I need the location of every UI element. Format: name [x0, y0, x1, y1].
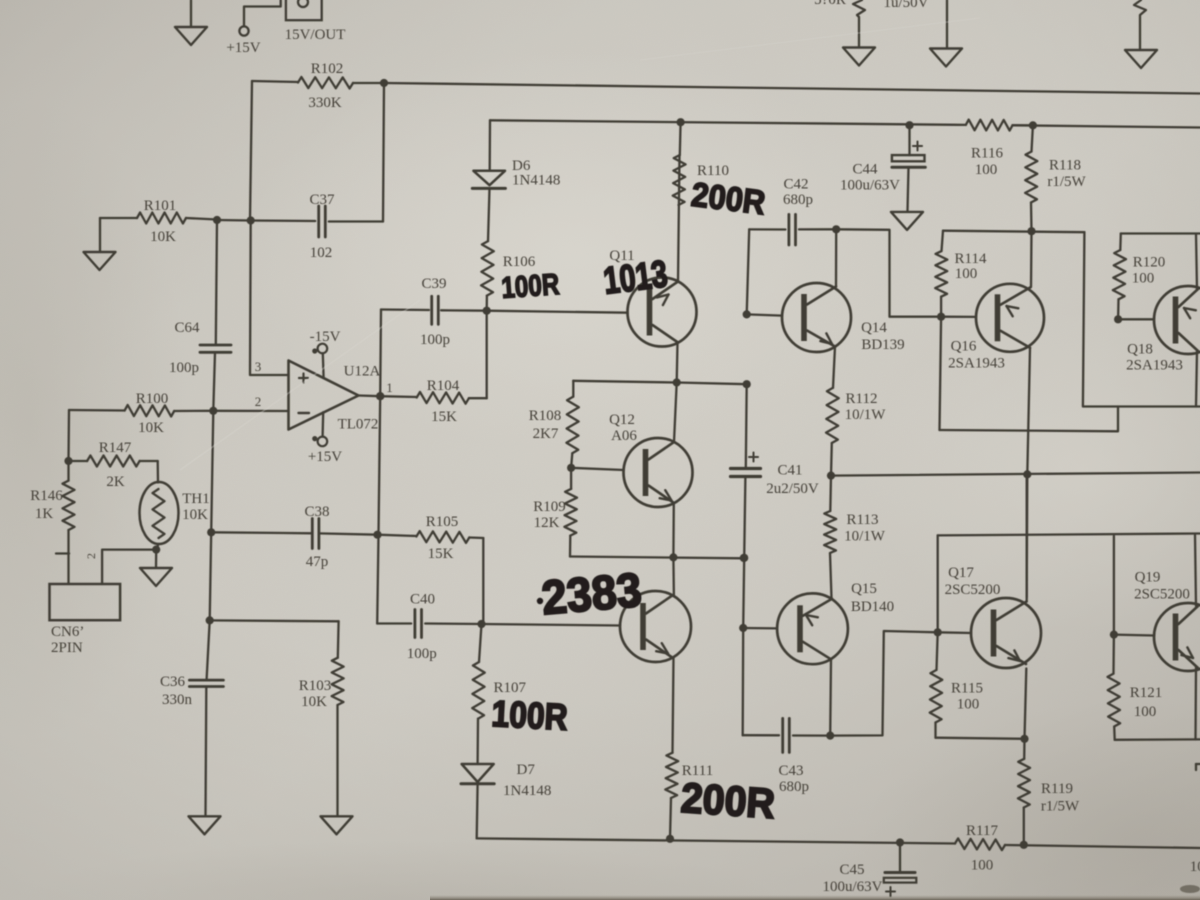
resistor R101: [100, 213, 217, 224]
wire: [940, 317, 942, 430]
label R114: [955, 251, 987, 282]
resistor R112: [826, 388, 839, 443]
svg-text:R120: R120: [1133, 255, 1166, 271]
node: [380, 79, 388, 87]
Q16 diag down: [1001, 331, 1031, 348]
svg-text:R102: R102: [311, 61, 344, 77]
wire Q13 collector: [672, 557, 675, 596]
svg-text:C39: C39: [421, 276, 446, 292]
label R106: [503, 254, 536, 270]
label pin1: [386, 380, 393, 395]
wire Q17 emitter: [1025, 669, 1027, 739]
wire Q11 emitter: [676, 343, 679, 383]
wire: [830, 553, 832, 598]
svg-text:Q12: Q12: [609, 412, 635, 428]
wire base Q11: [487, 311, 628, 313]
Q19 diag down: [1179, 650, 1199, 668]
ground: [84, 218, 116, 270]
svg-text:C64: C64: [174, 320, 200, 336]
resistor R105: [378, 531, 484, 543]
Q12 diag up: [649, 442, 675, 460]
wire: [476, 784, 479, 839]
wire: [1113, 536, 1115, 635]
capacitor C38: [312, 519, 319, 549]
svg-text:R113: R113: [847, 512, 879, 528]
svg-text:1013: 1013: [601, 253, 670, 302]
node: [1023, 470, 1031, 478]
artifact smudge: [1180, 885, 1200, 893]
label clipped: [1190, 859, 1200, 875]
svg-text:R100: R100: [136, 391, 169, 407]
wire: [217, 219, 251, 222]
ground: [321, 816, 353, 834]
label R146: [30, 488, 63, 522]
node: [1020, 735, 1028, 743]
wire: [204, 687, 207, 817]
handwritten 1013: [601, 253, 670, 302]
wire: [749, 228, 785, 230]
wire base Q19: [1114, 633, 1154, 636]
op-amp U1: [289, 361, 359, 430]
svg-text:47p: 47p: [306, 554, 329, 570]
pin tick: [56, 552, 69, 554]
thermistor TH1: [140, 482, 179, 544]
svg-text:2K7: 2K7: [533, 426, 559, 442]
Q13 arrow: [656, 643, 668, 653]
label R102: [308, 61, 343, 111]
node: [666, 835, 674, 843]
capacitor C37: [250, 83, 384, 237]
svg-text:1N4148: 1N4148: [512, 173, 560, 189]
label +15V op-amp: [308, 449, 342, 465]
label R100: [136, 391, 169, 436]
svg-text:200R: 200R: [679, 774, 776, 827]
label C37: [309, 192, 335, 261]
handwritten 200R top: [689, 176, 767, 223]
wire output rail: [831, 473, 1200, 476]
Q11 emitter diag: [653, 325, 679, 343]
wire: [677, 383, 747, 385]
wire Q14 collector: [835, 229, 838, 286]
diode D7: [461, 764, 494, 784]
svg-text:102: 102: [310, 245, 333, 261]
label Q18: [1126, 342, 1183, 374]
label R118: [1047, 158, 1086, 191]
ground: [140, 550, 172, 586]
Q12 diag down: [649, 486, 675, 504]
svg-text:C40: C40: [410, 592, 435, 608]
wire: [908, 167, 909, 211]
wire: [377, 622, 411, 624]
label R104: [427, 378, 460, 425]
svg-text:2PIN: 2PIN: [51, 640, 83, 656]
Q17 diag up: [997, 602, 1027, 621]
label R112: [845, 391, 887, 423]
svg-text:R114: R114: [955, 251, 987, 267]
svg-text:R119: R119: [1041, 781, 1073, 797]
resistor R118: [1025, 125, 1037, 202]
wire: [157, 461, 160, 483]
svg-text:TH1: TH1: [182, 491, 210, 507]
svg-text:100u/63V: 100u/63V: [823, 879, 883, 895]
label -15V: [310, 329, 341, 345]
resistor R113: [824, 476, 836, 553]
resistor R120: [1113, 234, 1126, 300]
transistor Q16: [976, 284, 1044, 352]
svg-text:100: 100: [975, 162, 998, 178]
wire Q19 collector: [1195, 535, 1196, 606]
wire base Q16: [941, 316, 976, 318]
svg-text:C43: C43: [778, 763, 803, 779]
resistor R109: [564, 489, 577, 536]
node: [827, 472, 835, 480]
wire Q12 collector: [674, 383, 677, 443]
svg-text:100: 100: [1132, 271, 1155, 287]
ground: [930, 0, 962, 67]
svg-text:C42: C42: [783, 177, 808, 193]
svg-text:C45: C45: [839, 862, 864, 878]
wire: [211, 532, 312, 533]
node: [743, 310, 751, 318]
wire base Q17: [938, 631, 972, 634]
label Q14: [861, 320, 905, 353]
svg-text:Q18: Q18: [1127, 342, 1153, 358]
resistor R100: [69, 405, 213, 417]
capacitor C39: [432, 296, 439, 324]
svg-text:12K: 12K: [534, 515, 560, 531]
Q17 arrow: [1008, 650, 1020, 661]
wire: [476, 719, 479, 764]
svg-text:R117: R117: [966, 823, 998, 839]
wire: [210, 620, 339, 657]
transistor Q19: [1154, 603, 1200, 671]
label R103: [299, 678, 332, 710]
node: [247, 216, 255, 224]
wire Q18 collector: [1196, 351, 1197, 407]
resistor R114: [935, 231, 947, 297]
node: [896, 838, 904, 846]
wire opamp out down: [377, 396, 380, 623]
wire rail3: [943, 231, 1084, 233]
label pin3: [255, 359, 262, 374]
wire: [207, 620, 210, 679]
node: [1029, 121, 1037, 129]
wire: [67, 410, 70, 461]
diode D6: [472, 171, 505, 189]
svg-text:R116: R116: [971, 146, 1003, 162]
resistor R147: [69, 456, 158, 467]
svg-text:100u/63V: 100u/63V: [840, 178, 900, 194]
wire R108 top: [573, 381, 676, 383]
svg-text:R103: R103: [299, 678, 332, 694]
svg-text:100p: 100p: [420, 332, 450, 348]
wire Q12 emitter: [672, 503, 675, 557]
svg-text:3: 3: [255, 359, 262, 374]
connector CN6: [50, 584, 121, 620]
svg-text:C37: C37: [309, 192, 335, 208]
label D7: [503, 762, 551, 799]
svg-text:C41: C41: [777, 463, 802, 479]
label C38: [304, 504, 329, 570]
svg-text:R109: R109: [533, 499, 566, 515]
svg-text:R106: R106: [503, 254, 536, 270]
label R109: [533, 499, 566, 531]
wire: [486, 311, 488, 399]
Q15 diag down: [803, 642, 831, 660]
label pin2: [255, 394, 262, 409]
wire: [441, 309, 487, 312]
svg-text:10K: 10K: [150, 229, 176, 245]
capacitor C41: [731, 453, 761, 477]
label Q15: [851, 581, 894, 615]
wire: [1117, 299, 1120, 319]
handwritten 200R bottom: [679, 774, 776, 827]
Q13 diag down: [646, 640, 672, 658]
wire Q15 collector: [829, 660, 832, 736]
svg-text:+15V: +15V: [226, 40, 260, 56]
wire Q17 collector: [1026, 474, 1028, 601]
Q12 arrow: [660, 490, 672, 500]
wire: [1023, 808, 1025, 845]
resistor R119: [1018, 739, 1030, 808]
wire base Q13: [482, 624, 621, 626]
wire: [250, 81, 252, 221]
node: [826, 732, 834, 740]
wire base Q18: [1118, 318, 1153, 320]
wire emitter rail: [570, 557, 744, 559]
label R120: [1132, 255, 1166, 287]
svg-text:D7: D7: [517, 762, 536, 778]
wire main left vertical: [210, 411, 214, 621]
label Q16: [948, 339, 1005, 372]
svg-text:10/1W: 10/1W: [845, 407, 887, 423]
svg-text:680p: 680p: [779, 779, 809, 795]
resistor R106: [481, 241, 494, 296]
label frag: [814, 0, 846, 8]
svg-text:R105: R105: [426, 514, 459, 530]
wire: [1030, 203, 1033, 232]
transistor Q17: [971, 598, 1041, 668]
label D6: [512, 158, 531, 174]
svg-text:100: 100: [1190, 859, 1200, 875]
svg-text:R121: R121: [1130, 685, 1163, 701]
wire: [830, 443, 833, 476]
node: [937, 313, 945, 321]
svg-text:1u/50V: 1u/50V: [884, 0, 929, 11]
ground: [175, 0, 207, 45]
terminal +15V op-amp: [312, 412, 327, 446]
resistor R117: [955, 838, 1005, 850]
svg-text:2u2/50V: 2u2/50V: [766, 481, 819, 497]
label Q19: [1134, 570, 1190, 603]
wire: [1026, 474, 1029, 597]
Q14 diag up: [807, 287, 836, 305]
wire: [486, 296, 488, 311]
label R115: [951, 681, 983, 713]
label R101: [144, 198, 177, 245]
svg-text:10/1W: 10/1W: [844, 529, 886, 545]
terminal -15V: [312, 344, 327, 378]
node: [832, 225, 840, 233]
svg-text:Q17: Q17: [948, 565, 974, 581]
resistor R107: [472, 624, 485, 719]
node: [740, 554, 748, 562]
label 15V/OUT: [285, 27, 346, 43]
svg-text:R104: R104: [427, 378, 460, 394]
wire: [156, 544, 158, 550]
edge stub: [1196, 764, 1200, 770]
Q18 diag down: [1179, 333, 1199, 351]
node: [1110, 631, 1118, 639]
wire Q11 collector: [678, 155, 680, 282]
wire Q19 emitter: [1194, 667, 1197, 740]
wire: [679, 122, 682, 155]
node: [477, 620, 485, 628]
label C45: [823, 862, 883, 895]
transistor Q15: [777, 593, 848, 664]
capacitor C45: [884, 843, 917, 897]
wire: [743, 734, 779, 736]
wire rail2: [490, 120, 1200, 127]
node: [1114, 315, 1122, 323]
svg-text:680p: 680p: [783, 192, 813, 208]
node: [677, 118, 685, 126]
svg-text:R146: R146: [30, 488, 63, 504]
svg-text:100R: 100R: [500, 268, 560, 305]
wire: [425, 622, 481, 625]
svg-text:+15V: +15V: [308, 449, 342, 465]
transistor Q12: [624, 438, 693, 507]
wire: [336, 705, 338, 816]
node output: [376, 392, 384, 400]
transistor Q11: [628, 278, 697, 347]
wire: [489, 120, 492, 170]
wire: [572, 381, 574, 397]
node: [152, 546, 160, 554]
node: [373, 531, 381, 539]
Q15 diag up: [803, 599, 832, 616]
resistor R146: [63, 461, 75, 553]
node: [673, 378, 681, 386]
ground: [843, 0, 875, 66]
svg-text:2383: 2383: [540, 564, 644, 626]
label C40: [407, 592, 437, 663]
wire: [745, 384, 748, 468]
resistor R115: [930, 632, 943, 722]
node: [207, 528, 215, 536]
wire: [482, 538, 484, 624]
svg-text:r1/5W: r1/5W: [1041, 799, 1080, 815]
node: [206, 616, 214, 624]
handwritten 100R bottom: [491, 693, 569, 738]
resistor R111: [665, 753, 678, 798]
wire rail out2: [938, 534, 1200, 536]
svg-text:2K: 2K: [106, 474, 125, 490]
wire pin2: [213, 410, 288, 413]
svg-text:100: 100: [957, 697, 980, 713]
transistor Q14: [782, 283, 851, 352]
capacitor C36: [189, 680, 223, 686]
svg-text:10K: 10K: [301, 694, 327, 710]
resistor R110: [673, 155, 686, 205]
Q13 diag up: [646, 596, 672, 614]
wire pin3: [250, 221, 289, 376]
Q11 arrow: [657, 295, 669, 306]
label CN6: [51, 624, 84, 656]
svg-text:Q15: Q15: [851, 581, 877, 597]
Q11 collector diag: [653, 282, 679, 300]
capacitor C43: [783, 718, 790, 752]
node: [743, 380, 751, 388]
label R111: [682, 763, 713, 779]
node: [567, 464, 575, 472]
wire: [937, 535, 939, 632]
svg-text:10K: 10K: [138, 420, 164, 436]
wire base Q15: [743, 627, 777, 630]
node: [739, 624, 747, 632]
transistor Q18: [1154, 286, 1200, 354]
wire: [936, 723, 1025, 739]
svg-text:R101: R101: [144, 198, 177, 214]
wire: [670, 798, 671, 839]
svg-text:2SC5200: 2SC5200: [1134, 587, 1190, 603]
svg-text:2SA1943: 2SA1943: [948, 356, 1005, 372]
svg-text:C44: C44: [852, 162, 878, 178]
svg-text:Q14: Q14: [861, 320, 887, 336]
node: [213, 216, 221, 224]
wire Q14 emitter: [833, 347, 835, 388]
svg-text:R147: R147: [99, 440, 132, 456]
wire Q13 emitter: [673, 658, 674, 753]
label 1N4148: [512, 173, 560, 189]
resistor R102: [252, 77, 384, 89]
resistor R108: [566, 397, 579, 454]
node: [483, 307, 491, 315]
capacitor C42: [789, 214, 796, 245]
node: [209, 407, 217, 415]
artifact scratch: [640, 18, 980, 60]
node: [1027, 227, 1035, 235]
label R110: [697, 163, 729, 179]
svg-text:330n: 330n: [162, 692, 193, 708]
svg-text:100: 100: [971, 858, 994, 874]
node: [934, 628, 942, 636]
wire base Q14: [747, 314, 782, 315]
handwritten 2383: [537, 564, 644, 626]
label U12A: [344, 364, 381, 380]
wire: [213, 352, 215, 410]
label C41: [766, 463, 819, 498]
Q18 arrow: [1184, 308, 1196, 318]
wire top rail: [384, 83, 1200, 94]
svg-text:330K: 330K: [308, 95, 342, 111]
label R105: [426, 514, 459, 562]
svg-text:r1/5W: r1/5W: [1047, 174, 1086, 190]
Q19 diag up: [1179, 606, 1199, 624]
svg-text:R108: R108: [529, 408, 562, 424]
wire rail R120: [1121, 232, 1200, 234]
wire Q16 emitter: [1030, 231, 1033, 287]
svg-text:BD139: BD139: [861, 337, 904, 353]
resistor R121: [1108, 635, 1121, 727]
wire: [830, 631, 938, 736]
Q17 diag down: [997, 646, 1027, 664]
svg-text:R112: R112: [846, 391, 878, 407]
svg-text:R115: R115: [951, 681, 983, 697]
svg-text:100: 100: [1134, 704, 1157, 720]
label R147: [99, 440, 132, 490]
wire: [488, 188, 490, 241]
